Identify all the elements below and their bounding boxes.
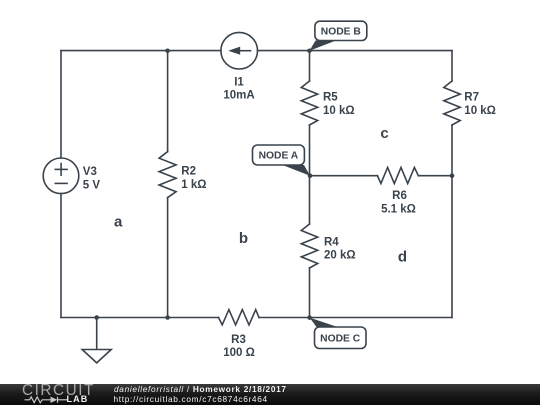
junction dot R2 bottom: [165, 315, 170, 320]
wire bottom rail left of R3: [61, 317, 219, 319]
wire left rail upper (top corner to V3): [60, 51, 62, 158]
wire top rail right of I1: [258, 50, 453, 52]
wire R4 top lead from NODE A: [309, 176, 311, 224]
wire R5 top lead from NODE B: [309, 51, 311, 81]
wire R2 branch bottom lead: [167, 198, 169, 318]
resistor R7 zigzag: [444, 81, 460, 125]
footer bar: [0, 384, 540, 405]
wire right rail lower (R7 to bottom corner): [451, 125, 453, 318]
wire R6 right lead: [418, 175, 452, 177]
wire top-left horizontal (top rail left of I1): [61, 50, 221, 52]
resistor R2 zigzag: [159, 152, 176, 198]
resistor R6 zigzag: [377, 168, 418, 184]
wire right rail upper (top corner to R7): [451, 51, 453, 81]
resistor R5 zigzag: [301, 81, 317, 125]
junction dot R6 right: [450, 173, 455, 178]
footer CircuitLab logo wordmark: [22, 384, 95, 398]
junction dot ground: [94, 315, 99, 320]
wire left rail lower (V3 to bottom corner): [60, 194, 62, 318]
voltage source V3 circle: [43, 158, 79, 194]
footer url line: [114, 395, 268, 404]
footer attribution line: [114, 385, 287, 394]
ground symbol: [82, 318, 111, 363]
junction dot NODE C: [307, 315, 312, 320]
junction dot R2 top: [165, 49, 170, 54]
node C callout: [310, 318, 366, 349]
wire bottom rail right of R3: [259, 317, 452, 319]
wire R6 left lead from NODE A: [310, 175, 378, 177]
node B callout: [310, 21, 367, 51]
junction dot NODE B: [307, 49, 312, 54]
node A callout: [253, 145, 311, 176]
resistor R3 zigzag: [219, 310, 260, 325]
wire R5 bottom lead to NODE A: [309, 125, 311, 176]
resistor R4 zigzag: [301, 224, 317, 268]
junction dot NODE A: [308, 173, 313, 178]
wire R2 branch top lead: [167, 51, 169, 152]
current source I1 circle with left arrow: [221, 32, 258, 69]
footer LAB text: [67, 395, 89, 403]
wire R4 bottom lead to NODE C: [309, 268, 311, 318]
